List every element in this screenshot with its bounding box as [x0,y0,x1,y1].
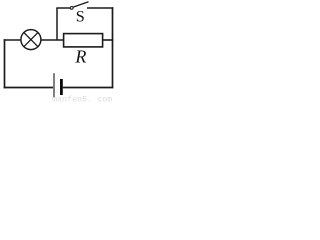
battery negative plate (short thick) [60,79,63,95]
svg-text:S: S [76,8,85,26]
circuit schematic: battery, lamp, resistor R with switch S in parallel [0,0,121,104]
wire: bottom wire right segment [63,87,114,89]
wire: bottom wire left segment [4,87,53,89]
wire: top wire left segment to switch [56,7,70,9]
wire: lamp to resistor box [41,39,64,41]
lamp L (circle with X) [21,30,41,50]
wire: resistor to right rail [103,39,114,41]
wire: junction vertical (node to switch branch) [56,8,58,40]
wire: left rail [4,39,6,88]
svg-text:manfen5. com: manfen5. com [52,95,112,104]
wire: top-left horizontal to lamp [4,39,21,41]
resistor R box [64,34,103,47]
switch S: pivot circle [70,7,73,10]
wire: top wire right segment [87,7,113,9]
battery positive plate (long thin) [53,73,55,97]
svg-text:R: R [74,46,86,66]
switch S: blade [73,2,88,7]
wire: right rail [112,7,114,88]
